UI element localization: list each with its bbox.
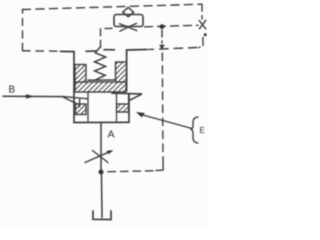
- plug X (blocked vent port): [199, 20, 206, 29]
- wire: dashed pilot envelope right vertical upper: [201, 4, 203, 19]
- node: dot below plug: [204, 33, 207, 36]
- spring cap (adjusting plug): [86, 50, 115, 52]
- valve body: right shelf: [112, 92, 142, 95]
- wire: dashed pilot envelope top horizontal: [23, 4, 203, 9]
- wire: drain corner to bottom: [156, 157, 163, 171]
- hatched right spring column: [116, 62, 127, 82]
- valve body: bottom: [74, 121, 129, 123]
- arrowhead: E leader arrow: [136, 112, 145, 118]
- svg-text:A: A: [108, 129, 115, 141]
- port B inlet line: [3, 95, 63, 97]
- node: drain junction dot: [99, 170, 104, 175]
- hatched left seat block: [76, 104, 87, 115]
- right lower sleeve box: [117, 94, 129, 122]
- left seat wedge at port B: [63, 97, 88, 107]
- valve body: right seat wedge: [129, 94, 142, 100]
- orifice X on box bottom edge: [120, 23, 137, 31]
- pilot valve box (check valve with orifice): [114, 15, 143, 27]
- hatched piston bar: [75, 82, 126, 92]
- valve body: upper right wall: [126, 50, 128, 91]
- arrowhead: needle valve arrow: [107, 150, 114, 154]
- wire: dashed left line to valve bonnet: [23, 50, 63, 52]
- port A line upper: [100, 123, 102, 151]
- check valve poppet (diamond): [123, 7, 134, 16]
- valve body: lower right wall: [128, 94, 130, 123]
- tank symbol: [93, 211, 111, 220]
- wire: line to tank: [101, 175, 104, 218]
- wire: dashed horizontal drain to tank line: [105, 171, 154, 172]
- valve body: left bonnet brim: [61, 50, 75, 52]
- wire: dashed vent return line (right bottom): [148, 48, 197, 50]
- port A line through needle valve: [100, 150, 102, 170]
- svg-text:E: E: [200, 126, 205, 135]
- valve body: left outer wall: [73, 52, 75, 123]
- svg-text:B: B: [9, 85, 16, 96]
- wire: dashed pilot line from box to spring cap: [101, 28, 113, 49]
- arrowhead: vent drop arrow pointing down: [159, 45, 164, 50]
- wire: dashed line box to plug X: [145, 25, 199, 27]
- arrowhead: B flow arrow: [26, 94, 35, 98]
- leader line from E brace: [141, 115, 192, 129]
- valve body: right bonnet brim: [127, 49, 147, 52]
- piston bore chamber walls: [88, 92, 117, 121]
- wire: dashed vertical drain line down right side: [161, 53, 164, 157]
- spring seat plate: [88, 79, 116, 81]
- wire: dashed pilot envelope left vertical: [22, 10, 24, 51]
- node: junction dot on vent line: [160, 24, 165, 29]
- spring: [95, 47, 106, 80]
- needle valve cross line: [93, 151, 109, 163]
- variable orifice (needle valve) cross: [85, 152, 110, 163]
- hatched right seat block: [117, 104, 129, 112]
- wire: dashed right vertical below plug: [199, 38, 203, 48]
- wire: dashed drop from junction: [161, 30, 163, 43]
- hatched left spring column: [74, 65, 86, 83]
- brace for E: [191, 117, 198, 143]
